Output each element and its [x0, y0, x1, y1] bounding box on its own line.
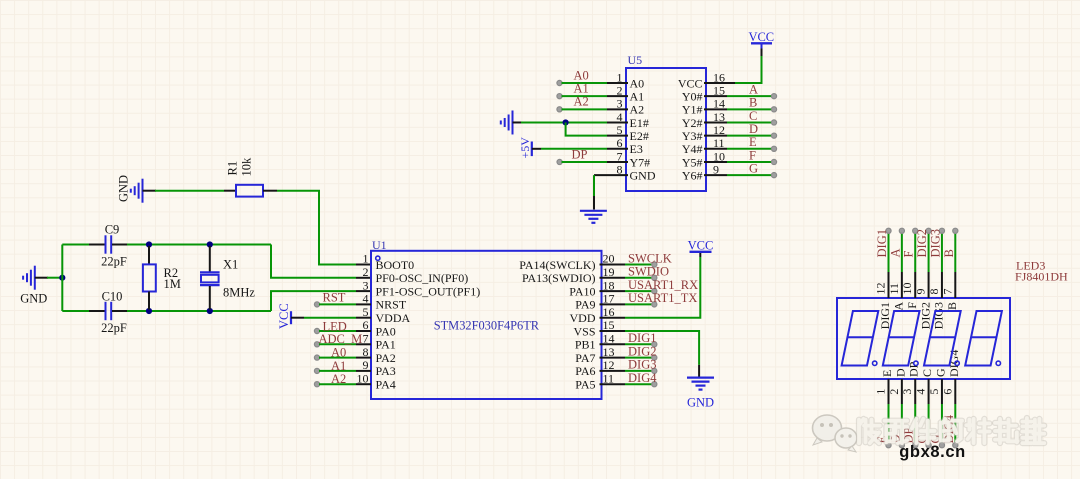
svg-text:Y1#: Y1#: [682, 103, 703, 117]
svg-text:3: 3: [363, 278, 369, 292]
svg-text:F: F: [905, 302, 919, 309]
svg-text:E1#: E1#: [630, 116, 649, 130]
svg-text:SWCLK: SWCLK: [628, 251, 672, 265]
wire LED3 bottom pin 4 (C): [928, 379, 930, 404]
wire VSS pin15 to GND: [600, 330, 626, 332]
junction (C9/X1 top): [207, 241, 213, 247]
wire osc-out to U1 pin3: [271, 291, 356, 311]
net E wire U5 pin11: [704, 148, 727, 150]
svg-text:A: A: [749, 83, 758, 97]
net G wire U5 pin9: [704, 174, 727, 176]
wire top rail left: [62, 244, 90, 246]
svg-text:PA0: PA0: [376, 324, 396, 338]
svg-text:A1: A1: [574, 82, 589, 96]
svg-text:DIG3: DIG3: [628, 358, 656, 372]
wire ground to node: [47, 277, 62, 279]
net DIG4 wire U1 pin11: [600, 383, 626, 385]
svg-text:E: E: [880, 370, 894, 377]
svg-text:1: 1: [363, 252, 369, 266]
svg-text:E3: E3: [630, 142, 643, 156]
ground GND (U5 pin8): [580, 210, 607, 212]
MCU U1 STM32F030F4P6TR: [371, 251, 602, 399]
svg-text:R1: R1: [226, 161, 240, 176]
svg-text:PA13(SWDIO): PA13(SWDIO): [522, 271, 596, 285]
svg-text:PF0-OSC_IN(PF0): PF0-OSC_IN(PF0): [376, 271, 469, 285]
svg-text:VCC: VCC: [748, 30, 774, 44]
svg-text:A1: A1: [630, 89, 645, 103]
svg-text:gbx8.cn: gbx8.cn: [899, 443, 966, 461]
net A2 wire to U1 pin10: [314, 382, 319, 387]
wire LED3 top pin 12 (DIG1): [888, 272, 890, 298]
wire GND pin8: [594, 174, 628, 176]
decimal point digit 1: [873, 361, 877, 365]
svg-text:VSS: VSS: [573, 324, 595, 338]
svg-text:Y4#: Y4#: [682, 142, 703, 156]
svg-text:A0: A0: [630, 76, 645, 90]
svg-text:PA2: PA2: [376, 351, 396, 365]
svg-text:GND: GND: [117, 175, 131, 202]
svg-text:Y0#: Y0#: [682, 89, 703, 103]
svg-text:DIG1: DIG1: [875, 229, 889, 257]
net SWCLK wire U1 pin20: [600, 264, 626, 266]
svg-text:VDD: VDD: [570, 311, 596, 325]
net A1 wire to U1 pin9: [314, 368, 319, 373]
7-segment digit 1: [842, 311, 879, 366]
svg-text:11: 11: [887, 283, 901, 295]
svg-text:RST: RST: [323, 291, 346, 305]
net DP wire U5 pin7: [557, 159, 562, 164]
svg-text:8MHz: 8MHz: [223, 286, 255, 300]
wire LED3 top pin 9 (DIG2): [928, 272, 930, 298]
wire LED3 top pin 10 (F): [914, 272, 916, 298]
svg-text:B: B: [945, 302, 959, 310]
wire LED3 top pin 7 (B): [954, 272, 956, 298]
svg-text:A2: A2: [630, 103, 645, 117]
svg-text:VDDA: VDDA: [376, 311, 411, 325]
resistor R2: [148, 246, 150, 264]
svg-text:10: 10: [900, 283, 914, 295]
svg-text:1: 1: [874, 389, 888, 395]
junction (C10/X1 bottom): [207, 308, 213, 314]
svg-text:U1: U1: [372, 238, 387, 252]
wire R1 to BOOT0: [263, 190, 277, 192]
svg-text:GND: GND: [20, 292, 47, 306]
net SWDIO wire U1 pin19: [600, 277, 626, 279]
svg-text:Y5#: Y5#: [682, 155, 703, 169]
svg-text:PA7: PA7: [575, 351, 595, 365]
svg-text:22pF: 22pF: [101, 321, 127, 335]
svg-text:A: A: [892, 302, 906, 311]
power VCC (U5): [751, 42, 772, 44]
svg-text:2: 2: [887, 389, 901, 395]
ground GND (oscillator): [34, 266, 36, 290]
svg-text:9: 9: [914, 289, 928, 295]
wire LED3 bottom pin 2 (D): [901, 379, 903, 404]
svg-text:DIG2: DIG2: [628, 344, 656, 358]
svg-text:E: E: [749, 135, 757, 149]
wire osc-in to U1 pin2: [271, 245, 356, 278]
net USART1_RX wire U1 pin18: [600, 290, 626, 292]
svg-text:A2: A2: [331, 372, 346, 386]
power VCC (U1 VDD): [690, 251, 712, 253]
net D wire U5 pin12: [704, 135, 727, 137]
svg-text:U5: U5: [628, 53, 643, 67]
svg-text:PF1-OSC_OUT(PF1): PF1-OSC_OUT(PF1): [376, 284, 481, 298]
resistor R1: [236, 185, 263, 197]
svg-text:C: C: [749, 109, 757, 123]
svg-text:A0: A0: [574, 68, 589, 82]
svg-text:D: D: [893, 368, 907, 377]
wire bottom rail left: [62, 310, 90, 312]
net A0 wire to U1 pin8: [314, 355, 319, 360]
capacitor C9: [89, 244, 105, 246]
wire LED3 bottom pin 5 (G): [941, 379, 943, 404]
ground GND (R1): [142, 179, 144, 203]
7-segment digit 2: [883, 311, 920, 366]
svg-text:C10: C10: [102, 290, 123, 304]
svg-text:A2: A2: [574, 95, 589, 109]
decimal point digit 4: [996, 361, 1000, 365]
svg-text:10k: 10k: [240, 157, 254, 177]
svg-text:C: C: [920, 369, 934, 377]
svg-text:STM32F030F4P6TR: STM32F030F4P6TR: [434, 318, 540, 332]
power +5V (E3 pin6): [531, 142, 533, 157]
wire ground to E1# pin4: [521, 121, 607, 123]
svg-text:VCC: VCC: [688, 239, 714, 253]
svg-text:ADC_M: ADC_M: [319, 332, 363, 346]
wire LED3 bottom pin 3 (DP): [914, 379, 916, 404]
svg-text:NRST: NRST: [376, 298, 407, 312]
svg-text:D: D: [749, 122, 758, 136]
svg-text:1M: 1M: [164, 277, 181, 291]
svg-text:PA10: PA10: [569, 284, 595, 298]
decimal point digit 3: [955, 361, 959, 365]
power VCC (VDDA pin5): [290, 311, 292, 324]
svg-text:PA14(SWCLK): PA14(SWCLK): [519, 258, 595, 272]
net RST wire to NRST pin4: [314, 302, 319, 307]
svg-text:G: G: [749, 162, 758, 176]
svg-text:Y2#: Y2#: [682, 116, 703, 130]
display LED3 box: [837, 298, 1010, 379]
svg-text:C9: C9: [105, 223, 120, 237]
svg-text:F: F: [749, 148, 756, 162]
svg-text:GND: GND: [630, 168, 656, 182]
svg-text:DIG1: DIG1: [628, 331, 656, 345]
svg-text:B: B: [749, 96, 757, 110]
net F wire U5 pin10: [704, 161, 727, 163]
net A wire U5 pin15: [704, 95, 727, 97]
svg-text:VCC: VCC: [678, 76, 703, 90]
7-segment digit 4: [965, 311, 1002, 366]
junction (C9/R2 top): [146, 241, 152, 247]
svg-text:PA1: PA1: [376, 338, 396, 352]
svg-text:FJ8401DH: FJ8401DH: [1015, 270, 1068, 284]
wire LED3 bottom pin 1 (E): [888, 379, 890, 404]
net ADC_M wire to U1 pin7: [314, 342, 319, 347]
wire E2# pin5: [566, 122, 607, 135]
net DIG2 wire U1 pin13: [600, 357, 626, 359]
svg-text:4: 4: [914, 389, 928, 395]
svg-text:Y7#: Y7#: [630, 155, 651, 169]
svg-text:GND: GND: [687, 396, 714, 410]
wire LED3 bottom pin 6 (DIG4): [954, 379, 956, 404]
svg-text:5: 5: [927, 389, 941, 395]
svg-text:DIG3: DIG3: [928, 229, 942, 257]
svg-text:DP: DP: [572, 147, 588, 161]
svg-text:DIG2: DIG2: [915, 229, 929, 257]
svg-text:A: A: [888, 248, 902, 257]
wire VCC U5 pin16: [704, 82, 735, 84]
svg-text:F: F: [902, 251, 916, 258]
svg-text:DIG2: DIG2: [918, 302, 932, 329]
svg-text:PA3: PA3: [376, 364, 396, 378]
svg-text:12: 12: [874, 283, 888, 295]
svg-text:Y6#: Y6#: [682, 168, 703, 182]
crystal X1: [209, 246, 211, 272]
svg-text:X1: X1: [223, 258, 238, 272]
junction (C10/R2 bottom): [146, 308, 152, 314]
svg-text:8: 8: [927, 289, 941, 295]
ground GND (E1#/E2#): [512, 110, 514, 134]
net A0 wire U5 pin1: [557, 80, 562, 85]
decimal point digit 2: [914, 361, 918, 365]
7-segment digit 3: [924, 311, 961, 366]
svg-text:Y3#: Y3#: [682, 129, 703, 143]
svg-text:DIG4: DIG4: [628, 371, 657, 385]
svg-text:PA4: PA4: [376, 378, 396, 392]
wire bottom rail right: [127, 310, 271, 312]
svg-text:+5V: +5V: [518, 137, 532, 159]
svg-text:22pF: 22pF: [101, 255, 127, 269]
capacitor C10: [89, 310, 105, 312]
svg-text:7: 7: [940, 289, 954, 295]
watermark wechat logo: [813, 415, 858, 452]
svg-text:PA9: PA9: [575, 298, 595, 312]
svg-text:SWDIO: SWDIO: [628, 265, 669, 279]
net USART1_TX wire U1 pin17: [600, 303, 626, 305]
svg-text:A1: A1: [331, 359, 346, 373]
svg-text:A0: A0: [331, 346, 346, 360]
wire VDD pin16 to VCC: [600, 317, 626, 319]
watermark text (stylized): [859, 418, 1044, 443]
svg-text:G: G: [933, 368, 947, 377]
svg-text:BOOT0: BOOT0: [376, 258, 415, 272]
svg-text:DIG1: DIG1: [878, 302, 892, 329]
svg-text:B: B: [942, 249, 956, 257]
svg-text:6: 6: [940, 389, 954, 395]
wire GND to R1: [155, 190, 224, 192]
svg-text:3: 3: [900, 389, 914, 395]
junction (E1#/E2#): [563, 119, 569, 125]
svg-text:VCC: VCC: [277, 303, 291, 329]
wire LED3 top pin 11 (A): [901, 272, 903, 298]
wire LED3 top pin 8 (DIG3): [941, 272, 943, 298]
net B wire U5 pin14: [704, 108, 727, 110]
svg-text:2: 2: [363, 265, 369, 279]
svg-text:USART1_RX: USART1_RX: [628, 278, 698, 292]
junction (left rail / ground): [59, 275, 65, 281]
net C wire U5 pin13: [704, 121, 727, 123]
net DIG1 wire U1 pin14: [600, 343, 626, 345]
svg-text:E2#: E2#: [630, 129, 649, 143]
decoder U5 box: [626, 68, 706, 191]
svg-text:PA5: PA5: [575, 378, 595, 392]
net A1 wire U5 pin2: [557, 94, 562, 99]
svg-text:USART1_TX: USART1_TX: [628, 291, 697, 305]
net DIG3 wire U1 pin12: [600, 370, 626, 372]
net LED wire to U1 pin6: [314, 328, 319, 333]
wire left rail vertical: [61, 245, 63, 312]
net A2 wire U5 pin3: [557, 107, 562, 112]
svg-text:PA6: PA6: [575, 364, 595, 378]
wire top rail right: [127, 244, 271, 246]
svg-text:PB1: PB1: [575, 338, 596, 352]
ground GND (U1 VSS): [687, 377, 714, 379]
